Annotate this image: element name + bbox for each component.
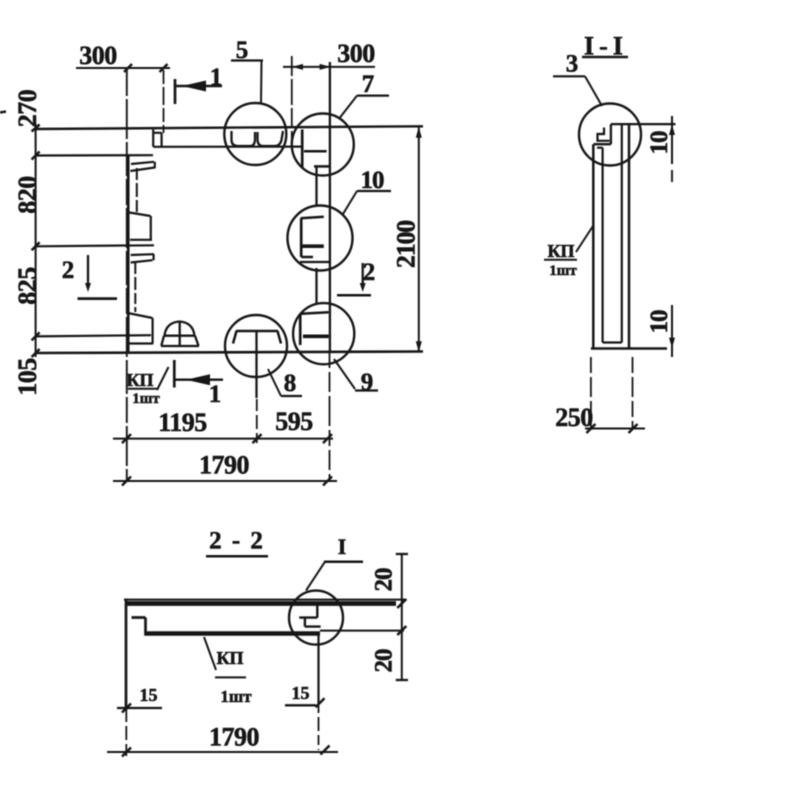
label 3 — [553, 51, 602, 107]
section I-I inner bottom — [603, 341, 622, 343]
extension x291.8 — [291, 56, 293, 146]
label KP section 2-2 — [204, 637, 252, 706]
dim 15 right — [285, 683, 325, 707]
circle 8 centre line — [255, 331, 257, 398]
section I-I inner right wall — [621, 124, 623, 342]
label 9 — [334, 359, 378, 396]
svg-text:270: 270 — [13, 89, 42, 127]
svg-text:300: 300 — [79, 41, 117, 70]
section I-I inner left wall — [601, 148, 603, 343]
section I-I bottom edge — [591, 347, 667, 350]
section marker 2 right — [337, 259, 375, 295]
finger tooth 3 — [131, 254, 154, 262]
slab left wall — [125, 599, 128, 711]
detail circle 3 — [579, 104, 641, 166]
svg-text:2: 2 — [363, 259, 376, 286]
dim1 slash ticks — [122, 434, 332, 443]
slab web bottom thick band — [145, 631, 321, 636]
svg-text:9: 9 — [361, 369, 374, 396]
svg-text:КП: КП — [547, 241, 574, 261]
label 7 — [340, 71, 389, 118]
title I-I underline — [582, 56, 628, 59]
dim 2100 arrows — [416, 127, 422, 138]
inner wall line lower — [134, 263, 136, 312]
dim 1790 section 2-2 — [107, 723, 338, 757]
dim 15 left — [117, 685, 162, 713]
dim 10 bottom — [646, 305, 675, 357]
svg-text:820: 820 — [13, 176, 42, 214]
dim 300 top-right line — [283, 66, 375, 68]
label I section 2-2 — [306, 534, 363, 591]
circle 10 joint detail — [301, 217, 324, 219]
panel left wall — [127, 156, 130, 353]
title 2-2 underline — [206, 555, 268, 558]
svg-text:105: 105 — [13, 358, 42, 396]
circle 7 wall step detail — [301, 130, 304, 169]
detail circle 10 — [288, 206, 353, 271]
section I-I right wall — [628, 124, 631, 348]
section I-I bottom extensions — [590, 357, 592, 430]
slab left step — [132, 618, 146, 636]
detail circle 8 — [225, 315, 287, 377]
svg-text:300: 300 — [337, 39, 375, 68]
svg-text:КП: КП — [216, 648, 243, 668]
big tooth 2 — [129, 213, 152, 240]
svg-text:1: 1 — [209, 381, 222, 408]
svg-text:8: 8 — [284, 370, 297, 397]
dim 250 — [555, 403, 645, 433]
label 10 — [343, 167, 391, 214]
big tooth 4 — [128, 313, 153, 344]
dim 2100 line — [418, 127, 420, 353]
svg-text:1шт: 1шт — [549, 263, 577, 279]
inner wall segment 10-9 — [315, 268, 317, 304]
section marker 1 bottom — [174, 360, 223, 408]
dim 300 top-left ticks — [124, 64, 132, 72]
svg-text:2 - 2: 2 - 2 — [209, 528, 265, 555]
svg-text:10: 10 — [646, 131, 673, 155]
label 5 — [231, 37, 263, 104]
extension x163 — [163, 70, 165, 133]
svg-text:1шт: 1шт — [132, 391, 160, 407]
inner wall segment 7-10 — [315, 166, 317, 206]
svg-text:10: 10 — [646, 310, 673, 334]
panel top edge — [153, 146, 302, 148]
inner wall line upper — [136, 168, 138, 212]
svg-text:1790: 1790 — [209, 723, 260, 752]
svg-text:1: 1 — [210, 64, 223, 91]
detail circle 5 — [224, 103, 286, 165]
slab web bottom extension — [320, 630, 404, 632]
svg-text:1195: 1195 — [158, 408, 207, 437]
svg-text:20: 20 — [371, 568, 398, 592]
detail circle 7 — [292, 114, 354, 176]
dim line 1790 plan — [113, 480, 337, 482]
svg-text:КП: КП — [126, 370, 153, 390]
right dim column section 2-2 — [371, 554, 409, 680]
left dim line vertical — [35, 124, 37, 357]
svg-text:3: 3 — [566, 51, 579, 78]
tick line y336 — [35, 335, 151, 336]
right wall below slab — [317, 634, 319, 703]
svg-text:1790: 1790 — [199, 451, 250, 480]
left margin mark — [0, 112, 6, 113]
circle 5 teeth detail — [232, 131, 256, 146]
svg-text:I: I — [338, 534, 347, 559]
dim2 slash ticks — [122, 477, 332, 486]
bottom panel edge line — [35, 352, 423, 354]
circle 9 joint detail — [301, 312, 329, 314]
section I-I inner step — [597, 147, 603, 149]
section I-I top step — [594, 124, 611, 144]
left wall extension dashed — [125, 710, 127, 756]
finger tooth 1 — [130, 162, 155, 171]
right outer wall dashed below — [329, 352, 331, 481]
left dim slash ticks — [32, 125, 40, 358]
label 8 — [268, 369, 302, 397]
top extension line — [35, 126, 423, 129]
dim line 1195/595 — [113, 438, 333, 440]
detail circle I — [289, 591, 343, 645]
svg-text:2100: 2100 — [392, 220, 421, 268]
dim 10 top — [646, 116, 675, 182]
dim 300 top-left line — [76, 67, 170, 69]
section I-I top edge — [611, 123, 676, 125]
circle 8 trapezoid detail — [233, 331, 281, 344]
left panel extension vertical — [126, 70, 128, 481]
label KP/1sht plan — [126, 367, 168, 407]
dim 300 top-right arrows — [292, 64, 303, 70]
section marker 1 top — [175, 64, 222, 104]
section I-I left outer wall — [592, 144, 595, 348]
panel right outer wall — [329, 62, 331, 352]
tick line y246 — [35, 245, 154, 246]
label KP/1sht section I-I — [544, 226, 593, 279]
slab top thin line — [124, 599, 405, 601]
svg-text:1шт: 1шт — [220, 687, 252, 706]
svg-text:15: 15 — [292, 683, 310, 703]
tick line y155 — [35, 154, 153, 157]
section I-I hook detail — [598, 128, 610, 141]
section marker 2 left — [62, 255, 117, 299]
slab top thick band — [126, 601, 396, 606]
arch detail — [161, 322, 199, 347]
svg-text:595: 595 — [275, 407, 313, 436]
panel top tab — [153, 130, 161, 147]
svg-text:15: 15 — [140, 685, 158, 705]
svg-text:2: 2 — [62, 257, 75, 284]
svg-text:7: 7 — [362, 71, 375, 98]
detail circle 9 — [293, 303, 354, 364]
circle I rebate detail — [299, 606, 320, 627]
svg-text:825: 825 — [13, 267, 42, 305]
svg-text:20: 20 — [371, 649, 398, 673]
